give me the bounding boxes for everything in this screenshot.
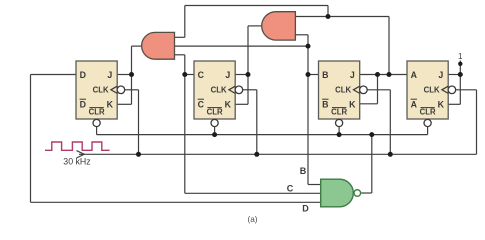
wire CLR drop FF D [96,127,98,135]
CLR inversion bubble [424,119,431,126]
clock edge triangle [111,86,117,93]
svg-text:J: J [350,70,355,80]
junction dot net C [182,72,187,77]
wire net C: run to NAND input C [185,192,321,194]
wire net A: branch up at x=328 [327,6,329,17]
junction dot net A at J of FF B [375,72,380,77]
svg-text:A: A [411,100,418,110]
wire net A: J-K jumper of FF B [377,75,379,104]
CLK inversion bubble [360,86,368,94]
svg-text:D: D [302,203,309,213]
svg-text:J: J [438,70,443,80]
junction dot net B at B output [306,72,311,77]
wire CLR drop FF C [214,127,216,135]
clock edge triangle [353,86,359,93]
svg-text:A: A [411,70,418,80]
terminal dot of 1 [458,62,462,66]
wire net B: B output stub [308,74,319,76]
junction dot net A riser [387,72,392,77]
wire NAND output riser to CLR bus [361,192,372,194]
wire net B: to G2 input 2 [295,34,308,36]
wire net B: vertical x=308 [307,35,309,185]
wire net B: to NAND input B [308,184,321,186]
flip-flop UA box [407,61,448,119]
wire net D: left vertical [30,75,32,203]
svg-text:B: B [322,70,328,80]
wire net D: D output to left edge [31,74,77,76]
clock arrowhead [77,151,85,158]
clock edge triangle [442,86,448,93]
svg-text:CLK: CLK [335,86,351,95]
NAND gate G3 [321,179,354,207]
NAND output bubble [354,190,361,197]
flip-flop UB box [319,61,360,119]
wire CLR drop FF A [427,127,429,135]
junction dot G2 output at J of FF C [246,72,251,77]
svg-text:D: D [80,100,86,110]
svg-text:30 kHz: 30 kHz [63,157,90,167]
svg-text:CLR: CLR [89,108,105,117]
wire net C: C output stub [185,74,194,76]
svg-text:CLR: CLR [331,108,347,117]
svg-text:CLR: CLR [420,108,436,117]
junction dot net B at G1 line [306,44,311,49]
wire clock drop FF D [124,89,139,91]
svg-text:J: J [225,70,230,80]
wire G1 output to J/K of FF D [132,45,142,47]
wire net A: riser to top [388,17,390,75]
wire net C: vertical x=184.8 [184,55,186,194]
wire CLR bus [97,134,428,136]
wire 1 to J/K of FF A [459,61,461,105]
CLK inversion bubble [235,86,243,94]
CLR inversion bubble [211,119,218,126]
svg-text:CLK: CLK [93,86,109,95]
svg-text:CLK: CLK [424,86,440,95]
junction dot net A top branch [326,14,331,19]
junction dot G1 output at J of FF D [129,72,134,77]
wire clock drop FF C [243,89,257,91]
svg-text:K: K [107,100,114,110]
wire net A: A output to J of FF B [360,74,407,76]
svg-text:D: D [80,70,86,80]
svg-text:C: C [198,70,205,80]
CLK inversion bubble [117,86,125,94]
wire G2 output to J/K of FF C [248,25,263,27]
junction dot 1 at J of FF A [458,72,463,77]
svg-text:K: K [349,100,356,110]
svg-text:K: K [225,100,232,110]
svg-text:CLR: CLR [207,108,223,117]
wire clock drop FF B [367,89,390,91]
svg-text:J: J [107,70,112,80]
svg-text:(a): (a) [247,215,257,224]
wire net A: topmost run to G1 input 1 [185,5,328,7]
AND gate G2 [262,12,296,40]
svg-text:B: B [300,166,307,176]
CLR inversion bubble [93,119,100,126]
clock edge triangle [229,86,235,93]
svg-text:CLK: CLK [211,86,227,95]
flip-flop UC box [194,61,235,119]
svg-text:1: 1 [458,52,463,61]
CLK inversion bubble [448,86,456,94]
svg-text:K: K [438,100,445,110]
svg-text:C: C [287,183,294,193]
wire net A: top run to G2 input 1 [295,16,389,18]
wire net B: long run to G1 input 2 [175,45,309,47]
wire clock right end to FF A CLK [455,89,476,91]
svg-text:C: C [198,100,205,110]
CLR inversion bubble [336,119,343,126]
clock source square wave [45,142,110,150]
flip-flop UD box [76,61,117,119]
svg-text:B: B [322,100,328,110]
wire net D: bottom run to NAND input D [31,201,321,203]
wire net C: to G1 input 3 [175,54,185,56]
AND gate G1 [142,32,175,59]
wire CLR drop FF B [338,127,340,135]
wire clock main line [79,153,477,155]
